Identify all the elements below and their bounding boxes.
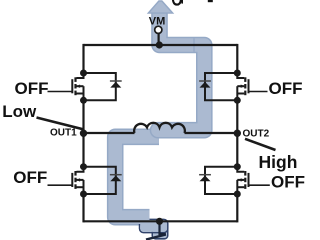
svg-text:OFF: OFF xyxy=(271,172,305,191)
svg-text:OUT2: OUT2 xyxy=(243,128,270,139)
svg-text:VM: VM xyxy=(149,16,166,28)
svg-text:OFF: OFF xyxy=(269,79,303,98)
svg-text:Low: Low xyxy=(2,102,37,121)
svg-text:OFF: OFF xyxy=(15,79,49,98)
svg-text:OUT1: OUT1 xyxy=(50,128,77,139)
svg-text:OFF: OFF xyxy=(13,168,47,187)
svg-text:High: High xyxy=(259,152,298,172)
